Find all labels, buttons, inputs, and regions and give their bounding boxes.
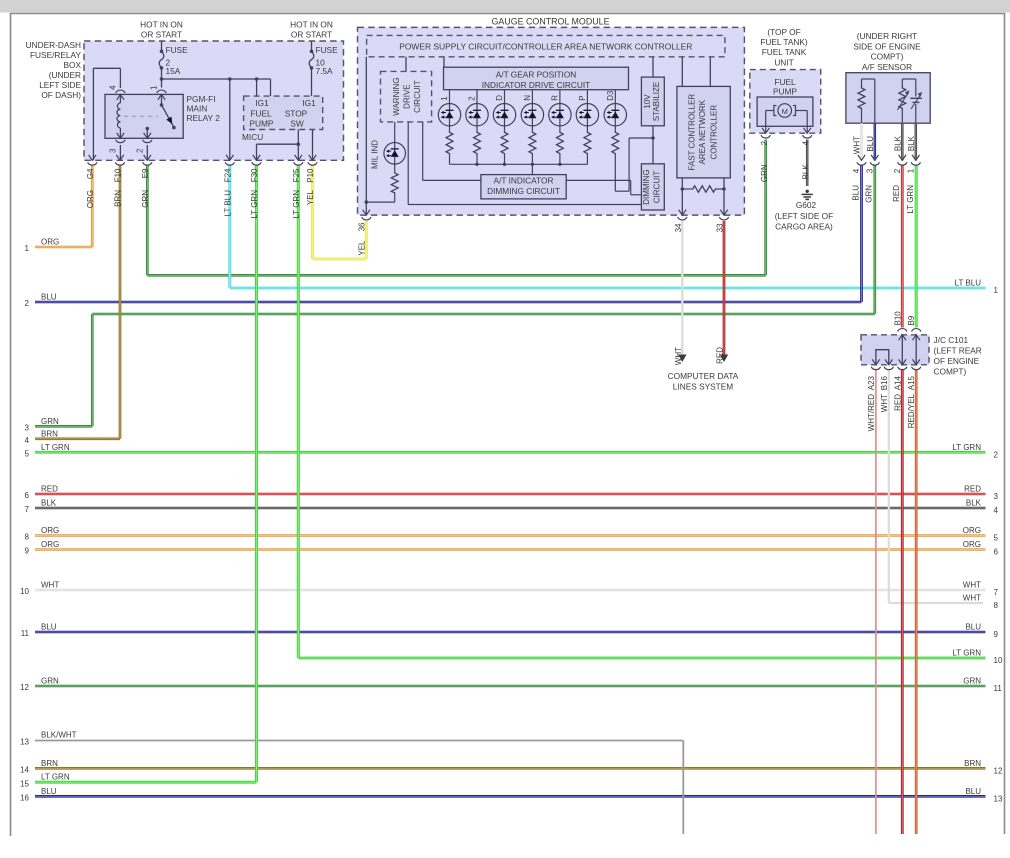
svg-text:YEL: YEL (358, 240, 367, 256)
svg-text:34: 34 (674, 223, 683, 232)
svg-text:BRN: BRN (41, 429, 58, 438)
svg-text:BLU: BLU (41, 293, 57, 302)
svg-text:(UNDER RIGHT: (UNDER RIGHT (857, 31, 917, 41)
svg-text:WHT: WHT (963, 581, 981, 590)
svg-text:F10: F10 (114, 168, 123, 182)
svg-text:7.5A: 7.5A (316, 66, 334, 76)
wire row ORG y=535.5 (35, 534, 986, 537)
svg-text:12: 12 (994, 766, 1003, 775)
wire WHT pin 34 to computer data (681, 221, 683, 355)
A/F pin 3 (874, 123, 877, 160)
wire RED/YEL from J/C A15 (915, 369, 918, 834)
svg-text:11: 11 (21, 629, 30, 638)
svg-text:LT GRN: LT GRN (952, 649, 981, 658)
A/F sensor variable resistor (901, 79, 903, 86)
svg-text:FUSE/RELAY: FUSE/RELAY (30, 50, 81, 60)
svg-text:(UNDER: (UNDER (49, 70, 81, 80)
svg-text:WARNING: WARNING (392, 77, 401, 115)
motor M (778, 104, 792, 118)
relay PGM-FI MAIN RELAY 2 box (105, 94, 183, 138)
A/F sensor resistor (861, 79, 863, 86)
LED N (531, 90, 533, 104)
svg-text:MICU: MICU (242, 132, 263, 142)
wire row LT GRN y=452.3 (35, 451, 986, 454)
exit F30 LT GRN (253, 155, 260, 160)
wire BLU from A/F pin 4 (860, 165, 863, 302)
svg-text:(LEFT SIDE OF: (LEFT SIDE OF (775, 211, 833, 221)
wire LT BLU from F24 (228, 166, 231, 289)
wire fuse2 junction to relay pin1 and IG1 box (160, 77, 164, 81)
svg-text:UNIT: UNIT (774, 57, 793, 67)
svg-text:4: 4 (109, 85, 118, 90)
A/T gear position indicator drive circuit box (444, 67, 629, 90)
svg-text:BRN: BRN (964, 759, 981, 768)
svg-text:ORG: ORG (41, 526, 59, 535)
LED 1 (449, 90, 451, 104)
svg-text:HOT IN ON: HOT IN ON (290, 20, 333, 30)
fuel pump exit 4 BLK (804, 128, 811, 133)
svg-text:A/F SENSOR: A/F SENSOR (862, 62, 912, 72)
svg-text:F25: F25 (292, 168, 301, 182)
svg-text:RELAY 2: RELAY 2 (187, 113, 221, 123)
svg-text:DRIVE: DRIVE (403, 84, 412, 108)
svg-text:BLK: BLK (802, 164, 811, 180)
svg-text:FUEL: FUEL (774, 77, 796, 87)
wire GRN from A/F pin 3 (873, 165, 876, 314)
wire STOP SW output to F30/F25 (297, 130, 299, 161)
relay pin 2 (146, 127, 150, 131)
svg-text:ORG: ORG (86, 190, 95, 208)
power supply circuit box (367, 35, 725, 56)
A/F pin 4 (860, 123, 863, 160)
svg-text:LT BLU: LT BLU (223, 190, 232, 217)
svg-text:DIMMING: DIMMING (642, 169, 651, 205)
dimming circuit box (641, 164, 664, 210)
svg-text:A/T INDICATOR: A/T INDICATOR (494, 176, 554, 186)
svg-text:LINES SYSTEM: LINES SYSTEM (673, 382, 733, 392)
svg-text:AREA NETWORK: AREA NETWORK (698, 99, 707, 164)
svg-text:2: 2 (135, 148, 144, 153)
svg-text:BLK: BLK (907, 135, 916, 151)
wire RED pin 33 to computer data (723, 221, 726, 355)
svg-text:3: 3 (994, 492, 999, 501)
svg-text:WHT: WHT (880, 394, 889, 412)
svg-text:4: 4 (802, 140, 811, 145)
fast controller output resistor (681, 178, 683, 215)
svg-text:UNDER-DASH: UNDER-DASH (26, 40, 81, 50)
svg-text:3: 3 (108, 148, 117, 153)
wire LT GRN from F25 (297, 166, 300, 659)
motor wires to pins (766, 110, 774, 112)
svg-text:A14: A14 (893, 375, 902, 390)
A/T gear box feed (443, 57, 445, 67)
svg-text:GRN: GRN (865, 185, 874, 203)
A/F pin 1 (915, 123, 918, 160)
svg-text:1: 1 (994, 286, 999, 295)
relay pin 4 connector (116, 90, 125, 93)
svg-text:WHT: WHT (853, 136, 862, 154)
wire row WHT y=590.0 (35, 589, 986, 592)
svg-text:R: R (550, 95, 559, 101)
J/C B9-A15 through wire (915, 335, 917, 365)
wire BRN from F10 (119, 166, 122, 439)
svg-text:OF DASH): OF DASH) (41, 90, 81, 100)
svg-text:RED: RED (892, 185, 901, 202)
svg-text:D3: D3 (606, 90, 615, 101)
wire row WHT 8 right (889, 602, 983, 604)
svg-text:BLU: BLU (965, 623, 981, 632)
svg-text:FUSE: FUSE (166, 45, 189, 55)
svg-text:BOX: BOX (63, 60, 81, 70)
svg-text:MIL IND: MIL IND (371, 140, 380, 169)
svg-text:BRN: BRN (41, 759, 58, 768)
svg-text:J/C C101: J/C C101 (934, 335, 969, 345)
svg-text:BLU: BLU (41, 787, 57, 796)
MIL IND led chain (394, 122, 396, 143)
svg-text:16: 16 (20, 793, 29, 802)
svg-text:STABILIZE: STABILIZE (652, 82, 661, 121)
svg-text:A15: A15 (907, 375, 916, 390)
svg-text:A/T GEAR POSITION: A/T GEAR POSITION (496, 70, 577, 80)
svg-text:INDICATOR DRIVE CIRCUIT: INDICATOR DRIVE CIRCUIT (482, 80, 590, 90)
wire row LT GRN 10 right (298, 657, 985, 660)
wire WHT/RED from J/C A23 (875, 369, 877, 834)
svg-text:P10: P10 (306, 168, 315, 183)
svg-text:HOT IN ON: HOT IN ON (140, 20, 183, 30)
svg-text:FUEL: FUEL (250, 109, 272, 119)
svg-text:12: 12 (20, 683, 29, 692)
svg-text:2: 2 (468, 96, 477, 101)
svg-text:BLU: BLU (41, 623, 57, 632)
svg-text:COMPT): COMPT) (871, 52, 904, 62)
svg-text:4: 4 (994, 506, 999, 515)
wire row RED y=494.0 (35, 493, 986, 496)
svg-text:8: 8 (25, 533, 30, 542)
warning drive circuit box (381, 71, 432, 122)
svg-text:9: 9 (25, 547, 30, 556)
svg-text:1: 1 (906, 168, 915, 173)
svg-text:B16: B16 (880, 375, 889, 390)
A/T dimming to dimming circuit (566, 179, 631, 181)
svg-text:LEFT SIDE: LEFT SIDE (39, 80, 81, 90)
svg-text:2: 2 (893, 168, 902, 173)
svg-text:9: 9 (994, 630, 999, 639)
exit F25 LT GRN (295, 155, 302, 160)
svg-text:LT GRN: LT GRN (906, 185, 915, 214)
wire YEL from P10 (311, 166, 314, 260)
svg-text:FUEL TANK): FUEL TANK) (760, 37, 808, 47)
wire row BRN y=438.8 (35, 437, 120, 440)
J/C bridge A23-B16 (876, 350, 889, 365)
wire row BLU y=796.3 (35, 795, 986, 798)
module exit 34 (679, 210, 686, 215)
svg-text:PGM-FI: PGM-FI (187, 94, 216, 104)
svg-text:7: 7 (25, 505, 30, 514)
wire row LT BLU 1 right (230, 287, 986, 290)
svg-text:PUMP: PUMP (773, 87, 797, 97)
svg-text:POWER SUPPLY CIRCUIT/CONTROLLE: POWER SUPPLY CIRCUIT/CONTROLLER AREA NET… (399, 42, 692, 52)
svg-text:OF ENGINE: OF ENGINE (934, 356, 980, 366)
module exit 36 (363, 210, 370, 215)
svg-text:RED: RED (964, 485, 981, 494)
svg-text:GRN: GRN (963, 677, 981, 686)
relay coil pin4-pin3 (117, 94, 124, 99)
svg-text:A23: A23 (867, 375, 876, 390)
svg-text:36: 36 (358, 222, 367, 231)
A/F sensor variable-cell element (910, 97, 922, 99)
svg-text:LT GRN: LT GRN (41, 443, 70, 452)
LED P (586, 90, 588, 104)
svg-text:8: 8 (994, 601, 999, 610)
J/C B10-A14 through wire (901, 335, 903, 365)
svg-text:3: 3 (25, 423, 30, 432)
fast controller area network controller box (681, 57, 683, 87)
svg-text:6: 6 (25, 491, 30, 500)
svg-text:G4: G4 (86, 168, 95, 179)
svg-text:G602: G602 (796, 200, 817, 210)
LED 2 (476, 90, 478, 104)
under-dash fuse/relay box (84, 41, 344, 160)
svg-text:(TOP OF: (TOP OF (767, 27, 800, 37)
svg-text:11: 11 (994, 684, 1003, 693)
svg-text:FAST CONTROLLER: FAST CONTROLLER (688, 94, 697, 171)
svg-text:E9: E9 (141, 168, 150, 178)
wire GRN from E9 (146, 166, 149, 276)
svg-text:10V: 10V (643, 94, 652, 109)
rail pin36 vertical (365, 57, 367, 215)
relay pin 1 connector (157, 90, 166, 93)
LED D3 (614, 90, 616, 104)
svg-text:6: 6 (994, 548, 999, 557)
svg-text:(LEFT REAR: (LEFT REAR (934, 346, 982, 356)
svg-text:COMPUTER DATA: COMPUTER DATA (668, 371, 739, 381)
wire row ORG y=247.0 (35, 246, 92, 249)
svg-text:2: 2 (760, 140, 769, 145)
D3 resistor connection to 10V rail (615, 190, 629, 192)
svg-text:3: 3 (865, 168, 874, 173)
svg-text:1: 1 (150, 85, 159, 90)
J/C C101 junction connector box (861, 335, 929, 365)
wire BLK fuel pump pin 4 to ground (806, 140, 809, 187)
wire WHT from J/C B16 (888, 369, 890, 603)
svg-text:ORG: ORG (41, 238, 59, 247)
wire row BLK/WHT 13 (35, 740, 683, 742)
wire RED from J/C A14 (901, 369, 904, 834)
svg-text:LT GRN: LT GRN (41, 773, 70, 782)
svg-text:10: 10 (994, 656, 1003, 665)
svg-text:5: 5 (994, 534, 999, 543)
svg-text:OR START: OR START (291, 30, 332, 40)
LED D (504, 90, 506, 104)
svg-text:GAUGE CONTROL MODULE: GAUGE CONTROL MODULE (491, 17, 609, 27)
svg-text:N: N (523, 95, 532, 101)
wire row ORG y=549.5 (35, 548, 986, 551)
svg-text:B10: B10 (893, 311, 902, 326)
svg-text:SW: SW (290, 119, 304, 129)
svg-text:B9: B9 (907, 315, 916, 325)
svg-text:2: 2 (25, 299, 30, 308)
svg-text:IG1: IG1 (302, 98, 316, 108)
svg-text:BLK: BLK (41, 499, 57, 508)
svg-text:WHT/RED: WHT/RED (867, 394, 876, 432)
A/T indicator dimming circuit box (481, 175, 566, 199)
svg-text:BLK: BLK (893, 135, 902, 151)
svg-text:DIMMING CIRCUIT: DIMMING CIRCUIT (487, 186, 560, 196)
svg-text:13: 13 (20, 738, 29, 747)
svg-text:1: 1 (440, 96, 449, 101)
svg-text:FUEL TANK: FUEL TANK (762, 47, 807, 57)
svg-text:CARGO AREA): CARGO AREA) (775, 221, 833, 231)
svg-text:4: 4 (852, 168, 861, 173)
svg-text:WHT: WHT (963, 594, 981, 603)
10V stabilize box (652, 57, 654, 77)
svg-text:WHT: WHT (41, 581, 59, 590)
relay pin 3 (116, 140, 125, 143)
module exit 33 (720, 210, 727, 215)
exit F24 LT BLU (226, 155, 233, 160)
IG1 FUEL PUMP / IG1 STOP SW box (MICU) (244, 96, 323, 129)
svg-text:RED: RED (893, 394, 902, 411)
wire row BRN y=768.3 (35, 767, 986, 770)
warning drive circuit feed (405, 57, 407, 72)
svg-text:BLK/WHT: BLK/WHT (41, 731, 77, 740)
wire ORG from G4 (91, 166, 94, 248)
svg-text:GRN: GRN (760, 164, 769, 182)
svg-text:D: D (495, 95, 504, 101)
exit F10 BRN (116, 155, 123, 160)
svg-text:RED/YEL: RED/YEL (907, 393, 916, 428)
svg-text:CONTROLLER: CONTROLLER (710, 105, 719, 160)
svg-text:LT GRN: LT GRN (250, 190, 259, 219)
J/C bottom connectors (871, 367, 880, 370)
svg-text:LT GRN: LT GRN (292, 190, 301, 219)
rail to A/T indicator dimming (531, 164, 533, 174)
A/F pin 2 (901, 123, 904, 160)
wire P10 inside box (312, 130, 314, 161)
wire row GRN 3 (stub + long run) (35, 425, 92, 428)
svg-text:BLU: BLU (965, 787, 981, 796)
warning to A/T dimming feed (422, 122, 424, 180)
svg-text:MAIN: MAIN (187, 104, 208, 114)
svg-text:SIDE OF ENGINE: SIDE OF ENGINE (853, 41, 921, 51)
relay mechanical link dashed (124, 115, 158, 117)
J/C top connectors B10 B9 (898, 329, 907, 332)
svg-text:ORG: ORG (963, 526, 981, 535)
svg-text:YEL: YEL (306, 189, 315, 205)
svg-text:ORG: ORG (41, 540, 59, 549)
svg-text:15A: 15A (166, 66, 181, 76)
svg-text:GRN: GRN (141, 190, 150, 208)
exit G4 ORG (89, 155, 96, 160)
relay switch (158, 94, 165, 99)
svg-text:7: 7 (994, 588, 999, 597)
svg-text:GRN: GRN (41, 417, 59, 426)
svg-text:ORG: ORG (963, 540, 981, 549)
svg-text:4: 4 (25, 436, 30, 445)
ground G602 (806, 190, 809, 193)
wire LT GRN from A/F pin 1 to J/C B9 (915, 165, 918, 328)
svg-text:BLU: BLU (851, 185, 860, 201)
svg-text:1: 1 (25, 244, 30, 253)
svg-text:F24: F24 (223, 168, 232, 182)
svg-text:BLK: BLK (966, 499, 982, 508)
exit P10 YEL (309, 155, 316, 160)
fuel pump motor box (757, 97, 813, 126)
svg-text:CIRCUIT: CIRCUIT (652, 171, 661, 204)
svg-text:5: 5 (25, 449, 30, 458)
svg-text:RED: RED (41, 485, 58, 494)
LED resistor rail (450, 163, 588, 165)
svg-text:FUSE: FUSE (316, 45, 339, 55)
svg-text:PUMP: PUMP (250, 119, 274, 129)
svg-text:GRN: GRN (41, 677, 59, 686)
wire LT GRN from F30 (255, 166, 258, 783)
exit E9 GRN (144, 155, 151, 160)
svg-text:13: 13 (994, 794, 1003, 803)
svg-text:10: 10 (20, 587, 29, 596)
warning long rail to dimming circuit (407, 122, 409, 205)
svg-text:33: 33 (716, 223, 725, 232)
svg-text:OR START: OR START (141, 30, 182, 40)
wire row LT GRN 15 (35, 781, 257, 784)
svg-text:14: 14 (20, 765, 29, 774)
svg-text:LT GRN: LT GRN (952, 443, 981, 452)
svg-text:15: 15 (20, 779, 29, 788)
svg-text:COMPT): COMPT) (934, 367, 967, 377)
svg-text:CIRCUIT: CIRCUIT (413, 80, 422, 113)
svg-text:F30: F30 (250, 168, 259, 182)
fuse 10 7.5A (311, 41, 313, 51)
svg-text:LT BLU: LT BLU (955, 279, 982, 288)
wire row GRN y=686.0 (35, 685, 986, 688)
wire GRN fuel pump pin 2 (764, 140, 767, 276)
svg-text:BRN: BRN (114, 190, 123, 207)
svg-text:STOP: STOP (285, 109, 308, 119)
wire row BLU y=302.0 (35, 301, 862, 304)
wire row BLK y=508.0 (35, 507, 986, 510)
wire row BLU y=632.0 (35, 631, 986, 634)
svg-text:BLU: BLU (866, 136, 875, 152)
LED R (559, 90, 561, 104)
wire RED from A/F pin 2 to J/C B10 (901, 165, 904, 328)
fuse 2 15A (161, 41, 163, 51)
svg-text:2: 2 (994, 450, 999, 459)
svg-text:P: P (578, 95, 587, 100)
fuel pump exit 2 GRN (762, 128, 769, 133)
svg-text:IG1: IG1 (255, 98, 269, 108)
svg-text:M: M (782, 107, 788, 116)
